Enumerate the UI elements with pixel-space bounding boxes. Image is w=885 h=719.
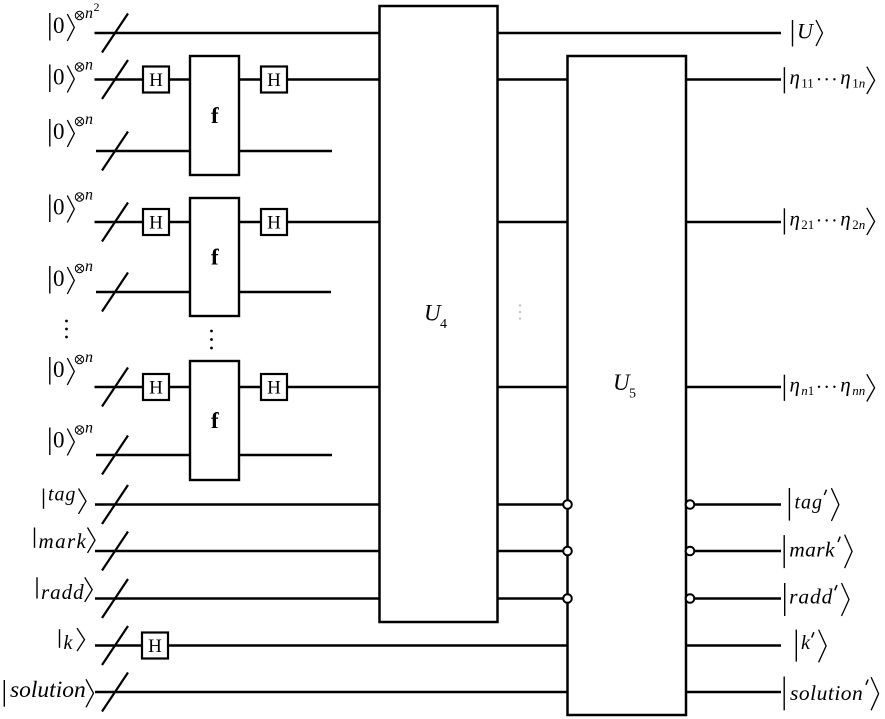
- open control circle tag left of U5: [563, 500, 572, 509]
- label |0> tensor-n (row5): [50, 258, 93, 294]
- svg-text:nn: nn: [852, 383, 865, 398]
- svg-text:n: n: [85, 187, 93, 204]
- svg-text:tag: tag: [48, 484, 76, 506]
- label |eta...> (eta row2 |eta11...eta1n>): [784, 65, 874, 94]
- wire mark: [95, 550, 781, 553]
- wire solution: [95, 691, 781, 694]
- label |mark> (mark): [35, 528, 96, 554]
- oracle gate f2: [190, 198, 239, 316]
- svg-text:radd: radd: [41, 580, 85, 604]
- svg-text:H: H: [149, 70, 163, 91]
- label |tag&#8242;> (tag-prime): [789, 488, 839, 521]
- H gate H row6-pre: [143, 374, 169, 400]
- svg-text:U: U: [797, 19, 815, 44]
- wire radd: [95, 597, 781, 600]
- slash (bus marker) on r7 wire: [102, 436, 128, 475]
- unitary U5 box: [568, 56, 687, 715]
- svg-text:H: H: [267, 70, 281, 91]
- label |0> tensor-n (row6): [50, 349, 93, 385]
- svg-text:0: 0: [53, 428, 65, 453]
- label |solution&#8242;> (solution-prime): [784, 677, 878, 711]
- label |tag> (tag): [44, 484, 87, 514]
- label |0> tensor-n2 (row1): [50, 0, 100, 41]
- svg-text:mark: mark: [789, 537, 835, 561]
- svg-text:η: η: [840, 206, 850, 230]
- label |0> tensor-n (row4): [50, 187, 93, 223]
- label |eta...> (eta row4 |eta21...eta2n>): [784, 206, 874, 235]
- wire row5 group2-bottom: [96, 291, 331, 294]
- svg-text:0: 0: [53, 195, 65, 220]
- open control circle mark left of U5: [563, 547, 572, 556]
- svg-text:2: 2: [94, 0, 100, 14]
- label |U> (output row1): [793, 19, 823, 47]
- svg-text:0: 0: [53, 266, 65, 291]
- wire row7 group3-bottom: [96, 454, 332, 457]
- svg-text:0: 0: [53, 119, 65, 144]
- svg-text:21: 21: [801, 217, 814, 232]
- svg-text:radd: radd: [789, 585, 833, 609]
- H gate H row2-pre: [143, 67, 169, 93]
- H gate H k-row: [142, 633, 168, 659]
- wire k: [95, 644, 781, 647]
- svg-text:H: H: [148, 636, 162, 657]
- slash (bus marker) on mark wire: [102, 532, 128, 571]
- slash (bus marker) on r5 wire: [102, 273, 128, 312]
- svg-text:η: η: [790, 373, 800, 397]
- open control circle mark right of U5: [686, 547, 695, 556]
- open control circle radd left of U5: [563, 594, 572, 603]
- slash (bus marker) on r6 wire: [102, 368, 128, 407]
- wire row3 group1-bottom: [96, 150, 332, 153]
- svg-text:η: η: [790, 65, 800, 89]
- unitary U4 box: [380, 6, 498, 622]
- svg-text:H: H: [149, 212, 163, 233]
- slash (bus marker) on radd wire: [102, 579, 128, 618]
- svg-text:H: H: [267, 377, 281, 398]
- svg-text:solution: solution: [10, 677, 86, 703]
- vertical ellipsis between f boxes: [210, 330, 213, 350]
- H gate H row4-pre: [143, 209, 169, 235]
- label |solution> (solution): [4, 677, 93, 707]
- slash (bus marker) on r4 wire: [102, 203, 128, 242]
- svg-text:H: H: [267, 212, 281, 233]
- wire row6 group3-top: [95, 386, 782, 389]
- svg-text:f: f: [211, 103, 219, 128]
- svg-text:mark: mark: [39, 529, 88, 553]
- slash (bus marker) on r1 wire: [102, 14, 128, 53]
- svg-text:η: η: [840, 373, 850, 397]
- svg-text:n: n: [85, 349, 93, 366]
- label |0> tensor-n (row3): [50, 111, 93, 147]
- svg-text:5: 5: [629, 387, 636, 402]
- svg-text:tag: tag: [795, 492, 824, 514]
- svg-text:0: 0: [53, 357, 65, 382]
- wire tag: [95, 503, 781, 506]
- H gate H row6-post: [261, 374, 287, 400]
- svg-text:2n: 2n: [852, 217, 865, 232]
- label |eta...> (eta row6 |etan1...etann>): [784, 373, 874, 402]
- label |0> tensor-n (row2): [50, 57, 93, 93]
- svg-text:k: k: [64, 632, 74, 654]
- label |radd&#8242;> (radd-prime): [785, 583, 849, 616]
- svg-text:n: n: [85, 5, 93, 22]
- wire row1 |0>^n2 -> |U>: [95, 32, 782, 35]
- label |mark&#8242;> (mark-prime): [784, 535, 852, 569]
- svg-text:k: k: [801, 632, 811, 654]
- svg-text:11: 11: [801, 76, 814, 91]
- slash (bus marker) on r3 wire: [102, 132, 128, 171]
- slash (bus marker) on r2 wire: [102, 60, 128, 99]
- svg-text:n: n: [85, 420, 93, 437]
- wire row4 group2-top: [95, 221, 782, 224]
- svg-text:η: η: [840, 65, 850, 89]
- svg-text:1n: 1n: [852, 76, 865, 91]
- svg-text:solution: solution: [790, 681, 863, 705]
- svg-text:n: n: [85, 111, 93, 128]
- wire row2 group1-top: [95, 78, 782, 81]
- svg-text:4: 4: [440, 317, 447, 332]
- vertical ellipsis between wire groups (left): [65, 320, 68, 339]
- H gate H row4-post: [261, 209, 287, 235]
- slash (bus marker) on k wire: [102, 626, 128, 665]
- label |radd> (radd): [37, 577, 92, 604]
- open control circle tag right of U5: [686, 500, 695, 509]
- open control circle radd right of U5: [686, 594, 695, 603]
- label |k> (k): [60, 628, 85, 654]
- svg-text:0: 0: [53, 13, 65, 38]
- slash (bus marker) on tag wire: [102, 485, 128, 524]
- faint vertical ellipsis in U4/U5 gap: [519, 304, 522, 320]
- svg-text:f: f: [211, 408, 219, 433]
- oracle gate f3: [190, 361, 239, 480]
- svg-text:η: η: [790, 206, 800, 230]
- svg-text:n: n: [85, 57, 93, 74]
- label |k&#8242;> (k-prime): [796, 630, 826, 663]
- svg-text:n: n: [85, 258, 93, 275]
- oracle gate f1: [190, 56, 239, 175]
- svg-text:f: f: [211, 245, 219, 270]
- label |0> tensor-n (row7): [50, 420, 93, 456]
- H gate H row2-post: [261, 67, 287, 93]
- svg-text:n1: n1: [801, 383, 814, 398]
- svg-text:H: H: [149, 377, 163, 398]
- slash (bus marker) on sol wire: [102, 673, 128, 712]
- svg-text:0: 0: [53, 65, 65, 90]
